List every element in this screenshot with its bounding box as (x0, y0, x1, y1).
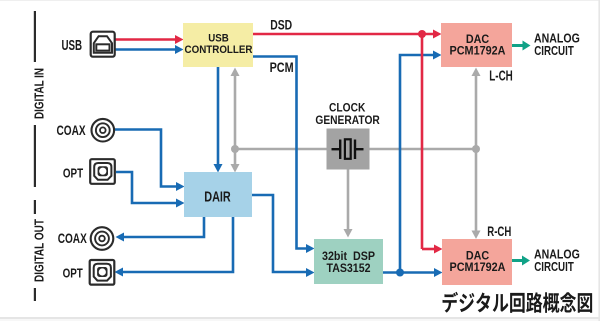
svg-text:GENERATOR: GENERATOR (315, 113, 380, 127)
svg-text:COAX: COAX (57, 123, 86, 138)
svg-text:DIGITAL OUT: DIGITAL OUT (31, 219, 46, 282)
svg-text:CIRCUIT: CIRCUIT (534, 259, 574, 274)
svg-text:DIGITAL IN: DIGITAL IN (31, 68, 46, 119)
svg-text:OPT: OPT (63, 165, 83, 180)
svg-text:DSD: DSD (270, 18, 292, 33)
svg-text:USB: USB (62, 38, 83, 54)
svg-text:R-CH: R-CH (487, 224, 511, 239)
svg-text:DAIR: DAIR (204, 189, 231, 206)
svg-text:L-CH: L-CH (489, 68, 513, 84)
svg-text:PCM1792A: PCM1792A (450, 44, 506, 58)
svg-text:PCM: PCM (270, 60, 294, 75)
svg-text:USB: USB (208, 33, 229, 45)
svg-text:OPT: OPT (63, 265, 83, 280)
svg-text:COAX: COAX (58, 231, 87, 246)
svg-text:PCM1792A: PCM1792A (450, 260, 506, 274)
svg-text:CONTROLLER: CONTROLLER (185, 44, 253, 56)
svg-text:CIRCUIT: CIRCUIT (534, 43, 574, 58)
svg-text:TAS3152: TAS3152 (327, 261, 371, 275)
